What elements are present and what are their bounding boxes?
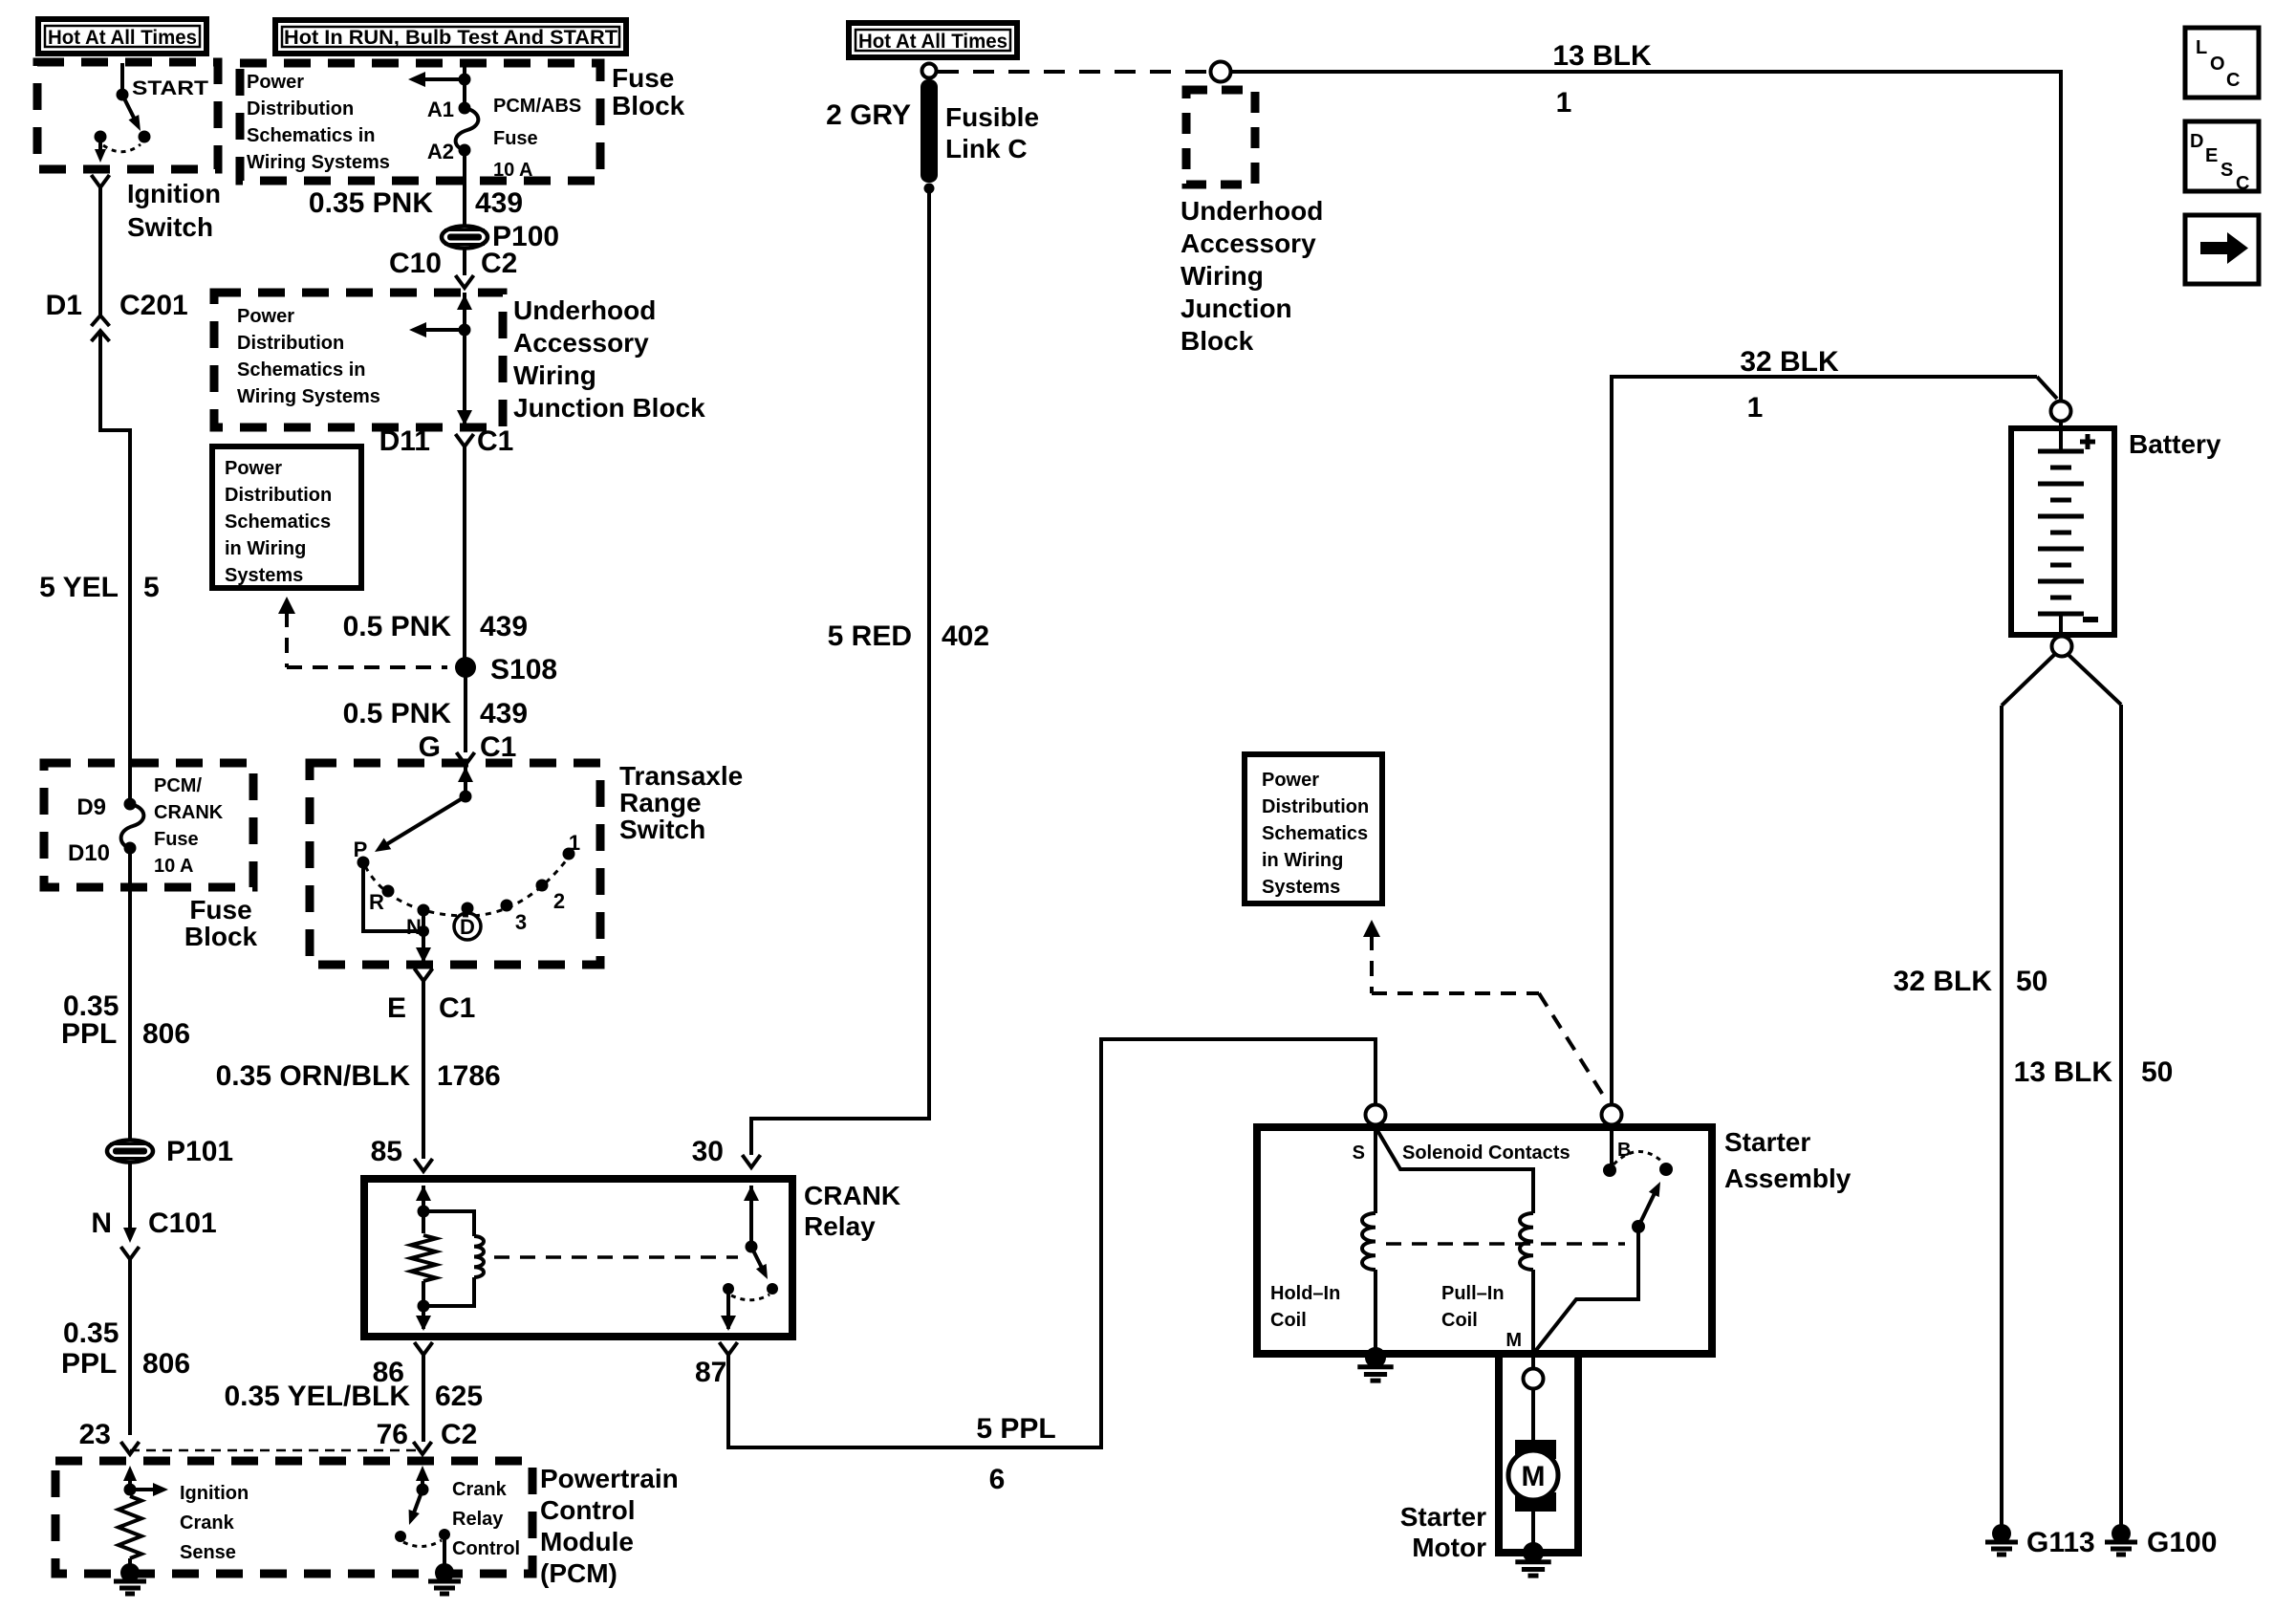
svg-text:S108: S108 bbox=[490, 654, 557, 685]
underhood junction block terminal (right) bbox=[1211, 62, 1231, 82]
svg-text:CRANK: CRANK bbox=[804, 1181, 900, 1210]
svg-text:P101: P101 bbox=[166, 1136, 233, 1167]
junction block entry arrow bbox=[457, 294, 472, 310]
svg-text:CRANK: CRANK bbox=[154, 802, 224, 823]
fuse terminal D9 bbox=[124, 798, 137, 811]
svg-text:D: D bbox=[460, 915, 475, 939]
svg-text:C1: C1 bbox=[480, 731, 516, 763]
svg-text:Motor: Motor bbox=[1412, 1533, 1486, 1562]
wire: B+ to starter B terminal (32 BLK) bbox=[1612, 377, 2037, 1104]
relay pin 87 exit arrow bbox=[726, 1289, 730, 1329]
svg-text:3: 3 bbox=[515, 910, 527, 934]
wire: ground leg to G113 (32 BLK 50) bbox=[2000, 706, 2004, 1525]
svg-text:625: 625 bbox=[435, 1381, 483, 1412]
svg-text:0.35: 0.35 bbox=[63, 1317, 119, 1349]
ground at PCM pin 23 resistor bbox=[128, 1558, 132, 1564]
contact 2 bbox=[536, 880, 549, 892]
svg-text:Solenoid Contacts: Solenoid Contacts bbox=[1402, 1142, 1570, 1164]
svg-text:Power: Power bbox=[225, 458, 282, 479]
svg-text:2: 2 bbox=[553, 889, 565, 913]
svg-text:1: 1 bbox=[1747, 392, 1764, 424]
PCM pin 23 entry arrow bbox=[128, 1472, 132, 1490]
relay coil top node bbox=[418, 1206, 430, 1218]
relay pin 30 entry arrow bbox=[749, 1186, 753, 1247]
svg-text:Distribution: Distribution bbox=[247, 98, 354, 120]
underhood junction block dashed box (right) bbox=[1186, 90, 1255, 185]
connector fork at PCM pin 23 bbox=[121, 1442, 140, 1454]
connector fork at PCM pin 76 bbox=[414, 1442, 432, 1454]
transaxle range switch pivot bbox=[460, 791, 472, 803]
svg-text:2 GRY: 2 GRY bbox=[826, 99, 911, 131]
wire: fuse A2 to P100 bbox=[463, 150, 466, 227]
fusible link C element bbox=[921, 79, 938, 183]
svg-text:23: 23 bbox=[79, 1419, 111, 1450]
wire: fuse block feed bbox=[463, 63, 466, 108]
ground at PCM crank relay control bbox=[435, 1563, 454, 1582]
svg-text:Relay: Relay bbox=[804, 1211, 876, 1241]
wire: relay 86 to PCM pin 76 bbox=[422, 1355, 425, 1442]
fuse terminal D10 bbox=[124, 842, 137, 855]
svg-text:C1: C1 bbox=[439, 992, 475, 1024]
svg-text:Relay: Relay bbox=[452, 1509, 504, 1530]
svg-text:30: 30 bbox=[692, 1136, 724, 1167]
svg-text:Schematics in: Schematics in bbox=[247, 125, 376, 146]
svg-text:13 BLK: 13 BLK bbox=[2014, 1056, 2113, 1088]
fuse terminal A2 bbox=[459, 144, 471, 157]
svg-text:G: G bbox=[419, 731, 441, 763]
svg-text:S: S bbox=[1353, 1142, 1365, 1164]
dashed reference arrow to S108 bbox=[278, 597, 295, 614]
solenoid switch pivot bbox=[1632, 1220, 1645, 1233]
svg-text:Transaxle: Transaxle bbox=[619, 761, 743, 791]
svg-text:1: 1 bbox=[569, 831, 580, 855]
svg-text:M: M bbox=[1505, 1330, 1522, 1351]
wire: pull-in coil to M bbox=[1531, 1270, 1535, 1354]
solenoid fixed contact B bbox=[1603, 1164, 1616, 1177]
svg-text:in Wiring: in Wiring bbox=[225, 538, 306, 559]
svg-text:PCM/ABS: PCM/ABS bbox=[493, 96, 581, 117]
svg-text:5 PPL: 5 PPL bbox=[976, 1413, 1055, 1445]
connector fork at ignition switch output bbox=[92, 175, 110, 187]
PCM/ABS fuse element bbox=[456, 108, 479, 150]
contact D bbox=[462, 903, 474, 915]
wire: fusible link to crank relay pin 30 (5 RED) bbox=[751, 188, 929, 1155]
fuse terminal A1 bbox=[459, 102, 471, 115]
connector fork at relay pin 30 bbox=[743, 1155, 761, 1167]
solenoid switch arm bbox=[1638, 1193, 1655, 1227]
relay pin 85 entry arrow bbox=[422, 1186, 425, 1211]
svg-text:Fuse: Fuse bbox=[493, 128, 538, 149]
svg-text:806: 806 bbox=[142, 1348, 190, 1380]
wire: junction block to battery (13 BLK) bbox=[1231, 72, 2061, 401]
PCM switch left contact bbox=[395, 1531, 406, 1542]
svg-text:G113: G113 bbox=[2026, 1527, 2095, 1558]
battery box bbox=[2011, 428, 2114, 635]
svg-text:E: E bbox=[2205, 145, 2218, 166]
svg-text:10 A: 10 A bbox=[493, 160, 533, 181]
svg-text:Block: Block bbox=[1180, 326, 1254, 356]
contact P bbox=[357, 857, 370, 869]
relay dashed actuation line bbox=[494, 1255, 738, 1259]
svg-text:Fuse: Fuse bbox=[612, 63, 674, 93]
svg-text:Assembly: Assembly bbox=[1724, 1164, 1852, 1193]
svg-text:C2: C2 bbox=[481, 248, 517, 279]
svg-text:A1: A1 bbox=[427, 98, 454, 121]
svg-text:Crank: Crank bbox=[452, 1479, 508, 1500]
junction block distribution node bbox=[459, 324, 471, 337]
svg-text:0.5 PNK: 0.5 PNK bbox=[343, 698, 452, 729]
svg-text:402: 402 bbox=[942, 620, 989, 652]
wire: P101 to C101 bbox=[128, 1162, 132, 1228]
svg-text:Distribution: Distribution bbox=[1262, 796, 1369, 817]
svg-text:Starter: Starter bbox=[1400, 1502, 1486, 1532]
svg-text:76: 76 bbox=[377, 1419, 408, 1450]
PCM ignition crank sense arrow bbox=[130, 1488, 153, 1491]
wire: contact N to output bbox=[422, 910, 425, 931]
svg-text:Wiring Systems: Wiring Systems bbox=[247, 152, 390, 173]
svg-text:0.35 ORN/BLK: 0.35 ORN/BLK bbox=[216, 1060, 411, 1092]
wire: C201 down and jog right bbox=[100, 331, 130, 801]
transaxle range switch entry arrow bbox=[464, 765, 467, 796]
fusible link C terminal bbox=[922, 64, 937, 78]
starter dashed actuation line bbox=[1386, 1242, 1625, 1246]
relay coil bbox=[423, 1211, 474, 1236]
svg-text:Coil: Coil bbox=[1270, 1310, 1307, 1331]
wire: D11 to S108 bbox=[463, 446, 466, 667]
svg-text:50: 50 bbox=[2016, 966, 2047, 997]
PCM pin 76 entry arrow bbox=[421, 1472, 424, 1490]
connector fork C10/C2 bbox=[456, 275, 474, 288]
svg-text:Switch: Switch bbox=[127, 212, 213, 242]
battery negative terminal bbox=[2052, 637, 2072, 657]
svg-text:C: C bbox=[2236, 173, 2249, 194]
PCM switch right contact bbox=[439, 1529, 450, 1540]
ignition switch left contact bbox=[95, 131, 107, 143]
connector fork E/C1 bbox=[415, 968, 433, 981]
svg-text:Starter: Starter bbox=[1724, 1127, 1810, 1157]
svg-text:Schematics in: Schematics in bbox=[237, 359, 366, 381]
svg-text:1786: 1786 bbox=[437, 1060, 501, 1092]
connector fork G/C1 bbox=[457, 752, 475, 765]
svg-text:E: E bbox=[387, 992, 406, 1024]
svg-text:Module: Module bbox=[540, 1527, 634, 1556]
relay switch pivot bbox=[746, 1241, 758, 1253]
ignition switch moving contact bbox=[139, 131, 151, 143]
svg-text:N: N bbox=[406, 915, 422, 939]
svg-text:Ignition: Ignition bbox=[127, 179, 221, 208]
header box: Hot In RUN, Bulb Test And START bbox=[275, 20, 626, 54]
svg-text:Accessory: Accessory bbox=[1180, 228, 1316, 258]
transaxle range switch dashed box bbox=[310, 763, 600, 965]
dashed wire: hot feed to junction block bbox=[938, 70, 1208, 74]
svg-text:Control: Control bbox=[452, 1538, 520, 1559]
legend box arrow bbox=[2185, 215, 2259, 284]
header box: Hot At All Times (right) bbox=[849, 23, 1017, 57]
ignition switch dashed travel arc bbox=[103, 144, 141, 152]
wire: C101 to PCM pin 23 bbox=[128, 1259, 132, 1435]
ignition switch dashed box bbox=[37, 62, 218, 169]
wire: contact P to output bbox=[363, 862, 423, 931]
svg-text:439: 439 bbox=[475, 187, 523, 219]
svg-text:Range: Range bbox=[619, 788, 702, 817]
starter motor symbol bbox=[1515, 1440, 1556, 1459]
PCM crank relay control switch arm bbox=[413, 1490, 422, 1515]
ignition switch contact arrow bbox=[98, 142, 102, 150]
svg-text:S: S bbox=[2220, 160, 2233, 181]
wire: motor to ground bbox=[1531, 1500, 1535, 1543]
underhood junction block dashed box (centre) bbox=[214, 293, 503, 427]
relay fixed contact bbox=[723, 1283, 734, 1295]
svg-text:5 YEL: 5 YEL bbox=[39, 572, 119, 603]
svg-text:13 BLK: 13 BLK bbox=[1552, 40, 1652, 72]
svg-text:Crank: Crank bbox=[180, 1512, 235, 1534]
svg-text:D9: D9 bbox=[76, 794, 106, 820]
ignition switch arm (START position) bbox=[122, 95, 137, 123]
svg-text:D1: D1 bbox=[46, 290, 82, 321]
svg-text:Battery: Battery bbox=[2129, 429, 2221, 459]
svg-text:P: P bbox=[354, 838, 368, 861]
svg-text:Link C: Link C bbox=[945, 134, 1028, 163]
svg-text:50: 50 bbox=[2141, 1056, 2173, 1088]
relay coil bottom node bbox=[418, 1300, 430, 1313]
svg-text:Wiring: Wiring bbox=[513, 360, 596, 390]
svg-text:PPL: PPL bbox=[61, 1018, 117, 1050]
svg-text:806: 806 bbox=[142, 1018, 190, 1050]
connector fork at relay pin 85 bbox=[415, 1159, 433, 1171]
relay dashed travel arc bbox=[731, 1295, 769, 1300]
svg-text:Power: Power bbox=[247, 72, 304, 93]
svg-text:Hot At All Times: Hot At All Times bbox=[858, 31, 1007, 53]
PCM dashed box (Powertrain Control Module) bbox=[55, 1461, 532, 1574]
wire: solenoid pivot to M terminal bbox=[1533, 1227, 1638, 1354]
connector fork at relay pin 87 bbox=[720, 1342, 738, 1355]
svg-text:Systems: Systems bbox=[1262, 877, 1340, 898]
svg-text:85: 85 bbox=[371, 1136, 402, 1167]
transaxle range switch selector arm bbox=[385, 796, 466, 845]
junction dot at switch output bbox=[418, 925, 429, 937]
svg-text:439: 439 bbox=[480, 611, 528, 642]
ground at starter motor bbox=[1523, 1542, 1544, 1563]
PCM crank relay control switch pivot bbox=[417, 1484, 429, 1496]
connector C101 (arrow + fork) bbox=[123, 1228, 137, 1243]
reference box: Power Distribution Schematics in Wiring Systems bbox=[212, 446, 361, 588]
wire: B terminal into box bbox=[1610, 1125, 1614, 1170]
relay pin 86 exit arrow bbox=[422, 1306, 425, 1329]
svg-text:10 A: 10 A bbox=[154, 856, 194, 877]
resistor: ignition crank sense bbox=[119, 1496, 141, 1558]
wire: relay 87 to starter S terminal (5 PPL) bbox=[728, 1039, 1375, 1447]
battery cells bbox=[2059, 422, 2063, 451]
svg-text:Block: Block bbox=[184, 922, 258, 951]
hold-in coil bbox=[1362, 1213, 1375, 1270]
wire: P100 to C10/C2 bbox=[463, 248, 466, 275]
svg-text:Switch: Switch bbox=[619, 815, 705, 844]
fuse block distribution arrow (left) bbox=[422, 77, 465, 81]
svg-text:Underhood: Underhood bbox=[513, 295, 656, 325]
junction block exit arrow bbox=[457, 410, 472, 425]
starter assembly box bbox=[1257, 1127, 1712, 1354]
svg-text:5: 5 bbox=[143, 572, 160, 603]
fuse block dashed box (PCM/CRANK fuse) bbox=[44, 763, 253, 887]
svg-text:PPL: PPL bbox=[61, 1348, 117, 1380]
relay resistor bbox=[411, 1235, 436, 1281]
svg-text:Ignition: Ignition bbox=[180, 1483, 249, 1504]
svg-text:PCM/: PCM/ bbox=[154, 775, 202, 796]
PCM/CRANK fuse element bbox=[121, 804, 144, 848]
wire: M terminal to motor bbox=[1531, 1354, 1535, 1368]
splice P100 bbox=[442, 227, 487, 249]
svg-text:in Wiring: in Wiring bbox=[1262, 850, 1343, 871]
junction block distribution arrow (left) bbox=[423, 328, 465, 332]
starter S terminal bbox=[1366, 1105, 1386, 1125]
svg-text:D10: D10 bbox=[68, 840, 110, 866]
svg-text:Powertrain: Powertrain bbox=[540, 1464, 679, 1493]
svg-text:Power: Power bbox=[237, 306, 294, 327]
svg-text:87: 87 bbox=[695, 1357, 726, 1388]
svg-text:Hot In RUN, Bulb Test And STAR: Hot In RUN, Bulb Test And START bbox=[284, 27, 617, 49]
svg-text:O: O bbox=[2210, 54, 2225, 75]
pull-in coil bbox=[1520, 1213, 1533, 1270]
reference box: Power Distribution Schematics in Wiring Systems (right) bbox=[1245, 754, 1382, 903]
starter B terminal bbox=[1602, 1105, 1622, 1125]
wire: PCM switch contact to ground bbox=[443, 1534, 446, 1564]
svg-text:C: C bbox=[2226, 70, 2240, 91]
svg-text:1: 1 bbox=[1556, 87, 1572, 119]
svg-text:Accessory: Accessory bbox=[513, 328, 649, 358]
battery minus bbox=[2083, 617, 2098, 622]
relay moving contact bbox=[767, 1283, 778, 1295]
ignition switch contact (pivot) bbox=[117, 89, 129, 101]
splice P101 bbox=[107, 1141, 153, 1163]
svg-text:0.35 YEL/BLK: 0.35 YEL/BLK bbox=[224, 1381, 410, 1412]
svg-text:N: N bbox=[91, 1207, 112, 1239]
svg-text:Distribution: Distribution bbox=[237, 333, 344, 354]
svg-text:C101: C101 bbox=[148, 1207, 217, 1239]
svg-text:Control: Control bbox=[540, 1495, 636, 1525]
splice S108 bbox=[455, 657, 476, 678]
svg-text:439: 439 bbox=[480, 698, 528, 729]
PCM ignition crank sense node bbox=[124, 1484, 137, 1496]
selector dashed arc bbox=[365, 859, 567, 916]
CRANK relay box bbox=[364, 1179, 792, 1337]
svg-text:C2: C2 bbox=[441, 1419, 477, 1450]
wire: fuse D10 to P101 bbox=[128, 848, 132, 1141]
svg-text:Fuse: Fuse bbox=[154, 829, 199, 850]
svg-text:Underhood: Underhood bbox=[1180, 196, 1323, 226]
wire: 32 BLK diagonal to battery bbox=[2037, 377, 2057, 399]
wire: battery negative split to grounds bbox=[2002, 654, 2055, 706]
contact N bbox=[418, 904, 430, 917]
svg-text:Distribution: Distribution bbox=[225, 485, 332, 506]
svg-text:R: R bbox=[369, 890, 384, 914]
wire: S branch to pull-in coil bbox=[1375, 1127, 1533, 1213]
connector fork D11/C1 bbox=[456, 434, 474, 446]
svg-text:0.5 PNK: 0.5 PNK bbox=[343, 611, 452, 642]
legend box DESC bbox=[2185, 121, 2259, 191]
ground G113 bbox=[1992, 1524, 2011, 1543]
solenoid dashed travel arc bbox=[1614, 1151, 1663, 1164]
svg-text:Systems: Systems bbox=[225, 565, 303, 586]
svg-text:32 BLK: 32 BLK bbox=[1740, 346, 1839, 378]
svg-text:L: L bbox=[2196, 37, 2207, 58]
battery positive terminal bbox=[2051, 402, 2071, 422]
svg-text:C1: C1 bbox=[477, 425, 513, 457]
wire: ignition switch feed bbox=[120, 63, 124, 92]
solenoid moving contact bbox=[1659, 1163, 1673, 1176]
svg-text:D11: D11 bbox=[379, 425, 430, 457]
ground G100 bbox=[2112, 1524, 2131, 1543]
legend box LOC bbox=[2185, 28, 2259, 98]
svg-text:Hot At All Times: Hot At All Times bbox=[48, 27, 197, 49]
svg-text:M: M bbox=[1522, 1461, 1546, 1492]
relay switch arm bbox=[751, 1247, 764, 1272]
svg-text:Power: Power bbox=[1262, 770, 1319, 791]
svg-text:Schematics: Schematics bbox=[1262, 823, 1368, 844]
svg-text:Pull–In: Pull–In bbox=[1441, 1283, 1505, 1304]
wire: S terminal to coils bbox=[1374, 1125, 1377, 1213]
wire: E to crank relay pin 85 bbox=[422, 981, 425, 1159]
PCM switch dashed travel arc bbox=[403, 1540, 442, 1547]
svg-text:A2: A2 bbox=[427, 140, 454, 163]
svg-text:Coil: Coil bbox=[1441, 1310, 1478, 1331]
svg-text:6: 6 bbox=[989, 1464, 1006, 1495]
svg-text:Junction: Junction bbox=[1180, 294, 1292, 323]
svg-text:5 RED: 5 RED bbox=[828, 620, 912, 652]
fuse block dashed box (PCM/ABS fuse) bbox=[240, 63, 600, 181]
transaxle range switch exit arrow bbox=[422, 931, 425, 963]
svg-text:D: D bbox=[2190, 131, 2203, 152]
ground at hold-in coil bbox=[1365, 1347, 1386, 1368]
svg-text:Block: Block bbox=[612, 91, 685, 120]
starter motor housing bbox=[1499, 1354, 1578, 1553]
PCM connector alignment dashed line bbox=[130, 1449, 422, 1452]
svg-text:C201: C201 bbox=[119, 290, 188, 321]
battery plus bbox=[2080, 440, 2095, 445]
connector fork at relay pin 86 bbox=[415, 1342, 433, 1355]
svg-text:Fusible: Fusible bbox=[945, 102, 1039, 132]
header box: Hot At All Times (left) bbox=[38, 19, 206, 54]
svg-text:Fuse: Fuse bbox=[189, 895, 251, 925]
contact 3 bbox=[501, 900, 513, 912]
fuse block distribution node bbox=[459, 74, 471, 86]
svg-text:START: START bbox=[132, 77, 208, 99]
fusible link output dot bbox=[924, 184, 935, 194]
svg-text:0.35 PNK: 0.35 PNK bbox=[309, 187, 433, 219]
wire: S108 to transaxle range switch bbox=[464, 667, 467, 752]
svg-text:Junction Block: Junction Block bbox=[513, 393, 705, 423]
svg-text:G100: G100 bbox=[2147, 1527, 2217, 1558]
wire: ignition switch to C201 bbox=[98, 187, 102, 315]
contact 1 bbox=[563, 848, 575, 860]
contact R bbox=[382, 885, 395, 898]
svg-text:32 BLK: 32 BLK bbox=[1894, 966, 1993, 997]
svg-text:(PCM): (PCM) bbox=[540, 1558, 617, 1588]
svg-text:C10: C10 bbox=[389, 248, 442, 279]
wire: hold-in coil to ground bbox=[1374, 1270, 1377, 1354]
wire: ground leg to G100 (13 BLK 50) bbox=[2119, 705, 2123, 1525]
dashed reference arrow path to starter B bbox=[1363, 920, 1380, 937]
svg-text:Sense: Sense bbox=[180, 1542, 236, 1563]
starter M terminal bbox=[1524, 1369, 1544, 1389]
junction block internal wire bbox=[463, 293, 466, 427]
svg-text:Wiring: Wiring bbox=[1180, 261, 1264, 291]
connector C201 chevrons bbox=[92, 315, 110, 326]
label D (circled) bbox=[454, 913, 481, 940]
svg-text:Wiring Systems: Wiring Systems bbox=[237, 386, 380, 407]
svg-text:Schematics: Schematics bbox=[225, 511, 331, 533]
svg-text:Hold–In: Hold–In bbox=[1270, 1283, 1340, 1304]
